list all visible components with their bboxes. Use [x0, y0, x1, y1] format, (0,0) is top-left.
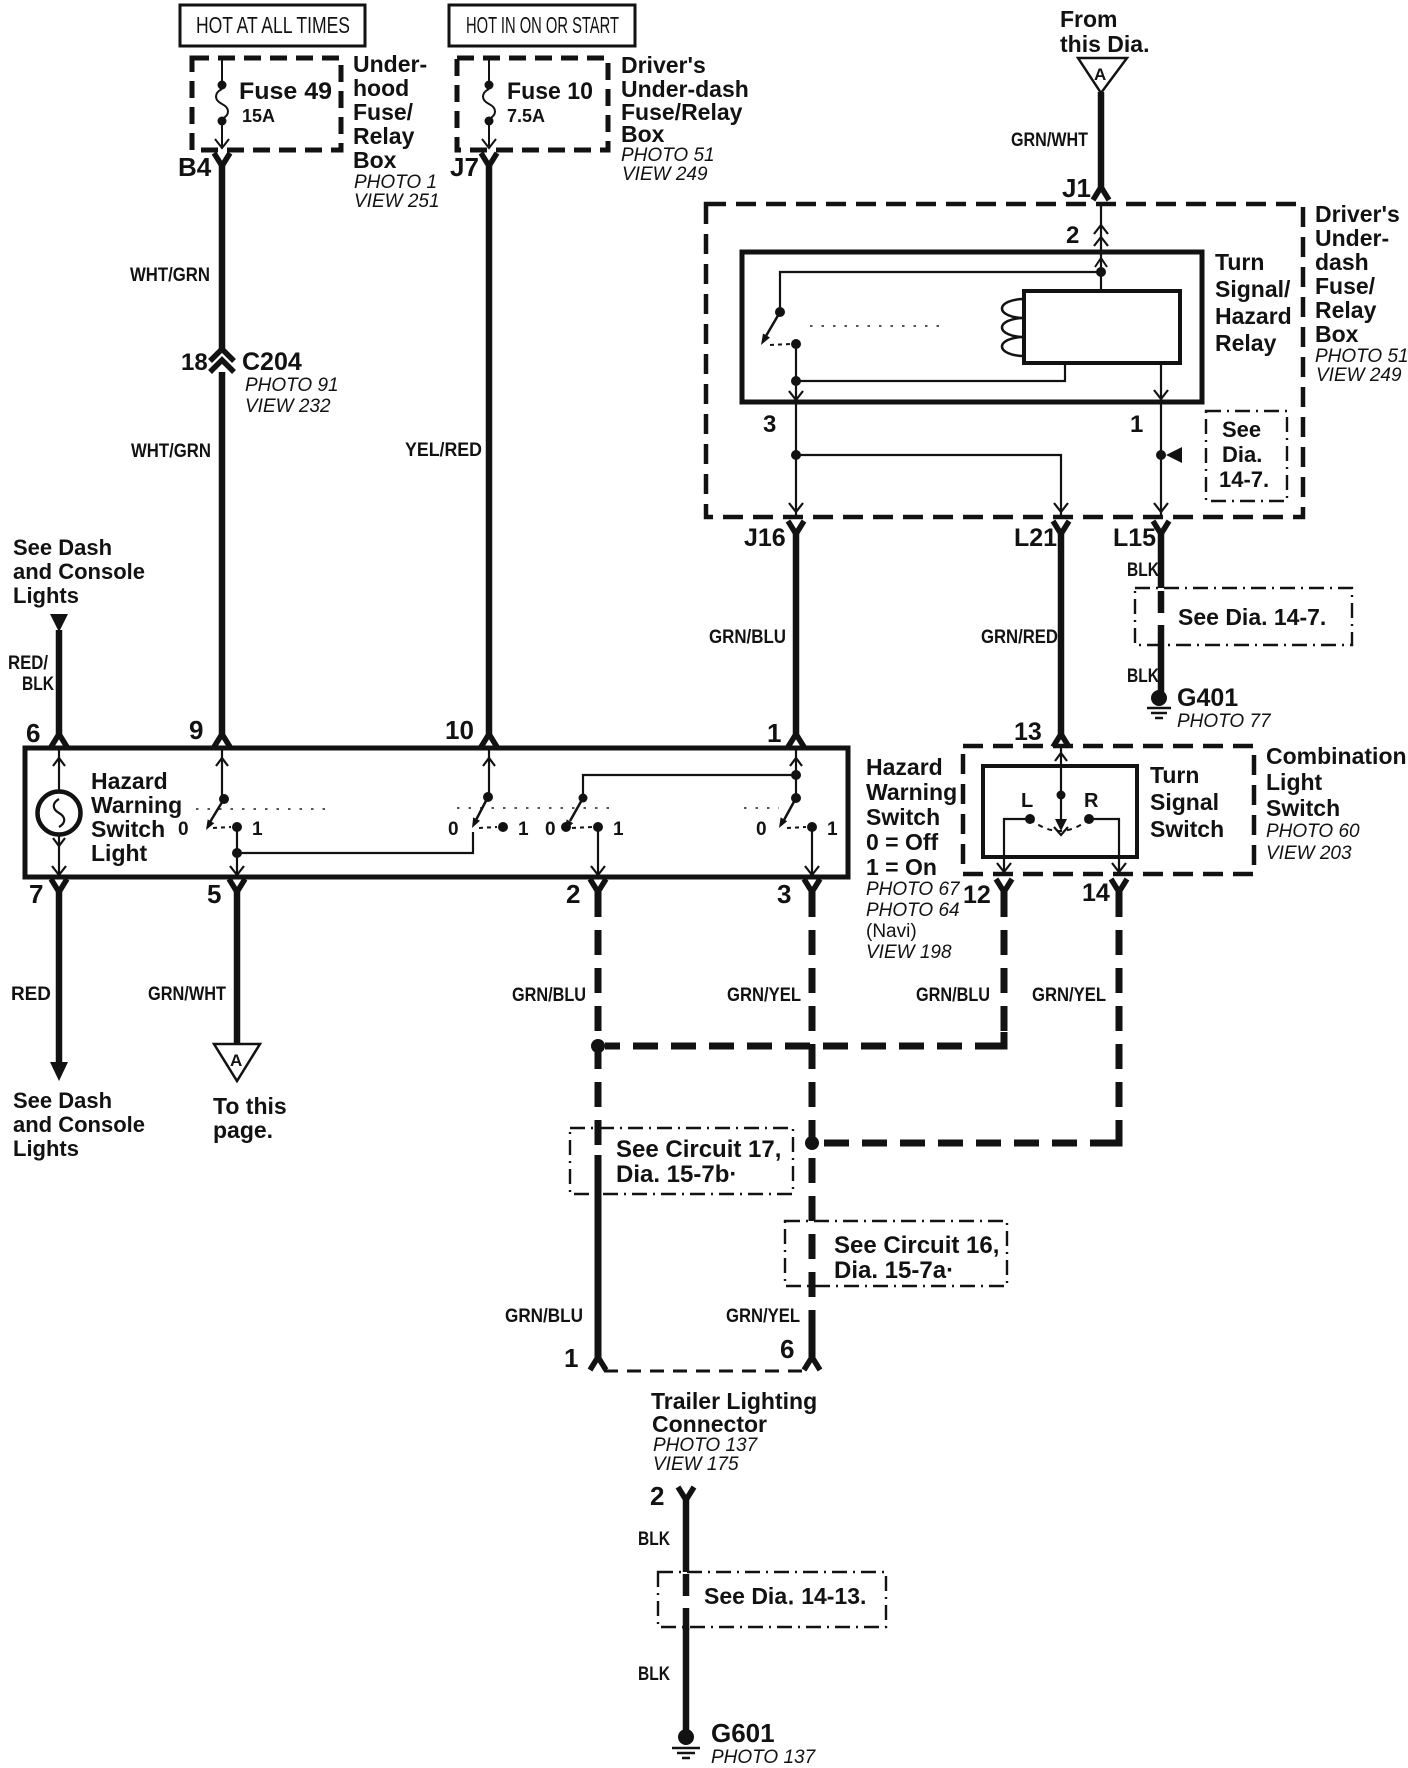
- svg-text:1: 1: [613, 819, 624, 840]
- hazard switch light bulb: [38, 792, 81, 835]
- connector fork B4: [214, 153, 230, 166]
- wire WHT/GRN B4 to C204: [219, 164, 226, 350]
- wire L contact to pin12: [1004, 819, 1030, 872]
- junction on pin1 wire: [1156, 450, 1166, 460]
- svg-text:Fuse/: Fuse/: [1315, 273, 1376, 299]
- svg-text:dash: dash: [1315, 249, 1369, 275]
- wire GRN/WHT pin5 down: [234, 890, 241, 1044]
- svg-text:HOT AT ALL TIMES: HOT AT ALL TIMES: [196, 12, 350, 38]
- svg-text:1: 1: [827, 819, 838, 840]
- svg-text:1: 1: [518, 819, 529, 840]
- svg-text:Signal: Signal: [1150, 789, 1219, 815]
- svg-text:J7: J7: [450, 152, 479, 182]
- svg-text:Combination: Combination: [1266, 743, 1407, 769]
- label Hazard Warning Switch 0=Off 1=On: [866, 754, 957, 880]
- See Dia. 14-7. box (upper): [1206, 411, 1287, 501]
- wire RED/BLK into hazard pin6: [56, 630, 63, 734]
- label Hazard Warning Switch Light: [91, 768, 182, 866]
- fuse F49 element: [215, 58, 229, 148]
- See Circuit 17 box: [570, 1128, 793, 1194]
- See Dia. 14-13. box: [658, 1572, 886, 1627]
- svg-text:VIEW 249: VIEW 249: [622, 164, 708, 185]
- svg-text:Relay: Relay: [353, 123, 415, 149]
- svg-text:3: 3: [777, 879, 791, 909]
- wire junction pin3 to L21: [796, 455, 1061, 515]
- svg-text:1: 1: [252, 819, 263, 840]
- svg-text:0: 0: [545, 819, 556, 840]
- svg-text:BLK: BLK: [22, 674, 54, 695]
- svg-text:1 = On: 1 = On: [866, 854, 937, 880]
- driver's under-dash fuse/relay box (large dashed): [706, 204, 1303, 517]
- svg-text:1: 1: [767, 718, 781, 748]
- svg-text:PHOTO 64: PHOTO 64: [866, 900, 960, 921]
- svg-text:Turn: Turn: [1215, 249, 1264, 275]
- svg-text:Light: Light: [1266, 769, 1323, 795]
- svg-text:VIEW 198: VIEW 198: [866, 942, 952, 963]
- wire GRN/WHT from A to J1: [1098, 92, 1105, 187]
- svg-text:Fuse 49: Fuse 49: [239, 78, 332, 105]
- svg-text:Lights: Lights: [13, 583, 79, 608]
- relay flasher output to pin1: [1160, 363, 1162, 515]
- svg-text:18: 18: [181, 349, 208, 376]
- connector fork L21: [1053, 521, 1069, 534]
- hazard lamp internal wire top: [58, 748, 60, 791]
- svg-text:PHOTO 60: PHOTO 60: [1266, 821, 1360, 842]
- svg-text:From: From: [1060, 6, 1118, 32]
- svg-text:Warning: Warning: [91, 792, 182, 818]
- connector C204 (pin 18): [210, 349, 234, 372]
- svg-text:Driver's: Driver's: [621, 52, 706, 78]
- relay switch arm: [766, 312, 780, 336]
- svg-text:Hazard: Hazard: [91, 768, 168, 794]
- svg-text:Fuse 10: Fuse 10: [507, 78, 593, 105]
- svg-text:1: 1: [564, 1343, 578, 1373]
- wire relay pin3 to J16: [795, 402, 797, 515]
- driver's under-dash fuse/relay box (dashed, top): [457, 58, 608, 150]
- header box HOT AT ALL TIMES: [180, 5, 365, 46]
- S1 wire down to pin5: [236, 827, 238, 875]
- svg-text:Fuse/: Fuse/: [353, 99, 414, 125]
- connector fork J16: [788, 521, 804, 534]
- relay wire pivot down to pin3: [795, 344, 797, 399]
- svg-text:2: 2: [650, 1481, 664, 1511]
- svg-text:PHOTO 137: PHOTO 137: [653, 1435, 759, 1456]
- wire corner patches: [990, 1032, 1004, 1046]
- combination light switch box (dashed): [963, 746, 1254, 874]
- S1 upper contact: [219, 794, 229, 804]
- svg-text:See Dia. 14-7.: See Dia. 14-7.: [1178, 604, 1326, 630]
- contact L: [1025, 814, 1035, 824]
- svg-text:Lights: Lights: [13, 1136, 79, 1161]
- header box HOT IN ON OR START: [449, 5, 635, 46]
- svg-text:Switch: Switch: [866, 804, 940, 830]
- connector forks pins 12 14: [996, 879, 1012, 892]
- S3 dashed link: [572, 827, 592, 828]
- svg-text:VIEW 175: VIEW 175: [653, 1454, 739, 1475]
- wire R contact to pin14: [1089, 819, 1119, 872]
- label Turn Signal/Hazard Relay: [1215, 249, 1292, 356]
- wire WHT/GRN C204 to hazard pin 9: [219, 372, 226, 736]
- connector forks hazard box top pins 6 9 10 1: [51, 734, 67, 747]
- svg-text:Dia. 15-7b·: Dia. 15-7b·: [616, 1161, 737, 1188]
- svg-text:7.5A: 7.5A: [507, 106, 545, 126]
- svg-text:L21: L21: [1014, 524, 1057, 552]
- S3 wire arm up and right to pin1 wire: [583, 775, 796, 798]
- label Driver's Under-dash Fuse/Relay Box PHOTO 51 VIEW 249 (top): [621, 52, 749, 147]
- connector fork J1: [1093, 187, 1109, 200]
- S4 upper contact: [791, 793, 801, 803]
- label See Dash and Console Lights (bottom left): [13, 1088, 145, 1161]
- svg-text:1: 1: [1130, 411, 1143, 438]
- relay flasher unit box: [1024, 291, 1180, 363]
- switch S2 (pin10) wire: [488, 748, 490, 794]
- svg-text:GRN/WHT: GRN/WHT: [148, 984, 226, 1005]
- svg-text:0: 0: [756, 819, 767, 840]
- svg-text:VIEW 249: VIEW 249: [1316, 365, 1402, 386]
- svg-text:Under-: Under-: [353, 51, 427, 77]
- svg-text:To this: To this: [213, 1093, 287, 1119]
- label Driver's Under-dash Fuse/Relay Box (right of dashed box): [1315, 201, 1400, 347]
- svg-text:PHOTO 91: PHOTO 91: [245, 375, 339, 396]
- wire GRN/BLU J16 to hazard pin1: [793, 532, 800, 736]
- svg-text:Under-: Under-: [1315, 225, 1389, 251]
- svg-text:YEL/RED: YEL/RED: [405, 440, 482, 461]
- S3 wire down to pin2: [597, 827, 599, 875]
- svg-text:2: 2: [1066, 222, 1079, 249]
- svg-text:Hazard: Hazard: [866, 754, 943, 780]
- svg-text:RED: RED: [11, 984, 51, 1005]
- svg-text:GRN/BLU: GRN/BLU: [512, 985, 586, 1006]
- svg-text:See Dash: See Dash: [13, 1088, 112, 1113]
- ground G601: [678, 1729, 694, 1745]
- dashed selector arc: [1030, 819, 1089, 831]
- wire GRN/YEL pin3 solid to trailer pin6: [809, 1330, 816, 1357]
- svg-text:BLK: BLK: [638, 1664, 670, 1685]
- underhood fuse/relay box (dashed): [192, 58, 341, 150]
- svg-text:Switch: Switch: [1150, 816, 1224, 842]
- svg-text:Relay: Relay: [1315, 297, 1377, 323]
- S2 upper contact: [483, 792, 493, 802]
- S3 pivot contact: [593, 822, 603, 832]
- relay pin3 exit arrow: [789, 391, 803, 400]
- wire pin2 into relay: [1100, 204, 1102, 291]
- connector fork L15: [1153, 521, 1169, 534]
- junction wire2/wire12: [591, 1039, 605, 1053]
- svg-text:this Dia.: this Dia.: [1060, 31, 1149, 57]
- S1 dashed link: [213, 827, 231, 828]
- turn signal switch inner box: [983, 766, 1137, 857]
- trailer lighting connector dashed edge: [604, 1370, 810, 1373]
- svg-text:J1: J1: [1062, 173, 1091, 203]
- S1 pivot contact: [232, 822, 242, 832]
- svg-text:Relay: Relay: [1215, 330, 1277, 356]
- turn signal arm arrowhead: [1055, 819, 1067, 831]
- svg-text:6: 6: [780, 1334, 794, 1364]
- svg-text:Box: Box: [353, 147, 397, 173]
- svg-text:14: 14: [1082, 879, 1110, 907]
- label See Dash and Console Lights (top left): [13, 535, 145, 608]
- svg-text:B4: B4: [178, 152, 212, 182]
- relay U1 turn signal/hazard relay box: [742, 252, 1202, 402]
- S2 arm: [476, 797, 488, 820]
- svg-text:PHOTO 51: PHOTO 51: [621, 145, 715, 166]
- svg-text:Light: Light: [91, 840, 148, 866]
- svg-text:GRN/BLU: GRN/BLU: [916, 985, 990, 1006]
- relay coil: [1002, 299, 1024, 356]
- svg-text:GRN/YEL: GRN/YEL: [727, 985, 801, 1006]
- svg-text:Warning: Warning: [866, 779, 957, 805]
- wire GRN/BLU pin2 down (dashed): [595, 892, 602, 1160]
- S4 pivot contact: [807, 822, 817, 832]
- connector fork pin13: [1053, 734, 1069, 747]
- svg-text:PHOTO 137: PHOTO 137: [711, 1747, 817, 1768]
- svg-text:Switch: Switch: [91, 816, 165, 842]
- wire S1 junction to S2 contact: [237, 832, 473, 853]
- svg-text:G401: G401: [1177, 684, 1238, 712]
- S2 pivot contact: [498, 822, 508, 832]
- svg-text:13: 13: [1014, 718, 1042, 746]
- fuse F10 element: [482, 58, 496, 148]
- relay dotted mechanical link: [810, 325, 940, 327]
- svg-text:14-7.: 14-7.: [1219, 467, 1269, 492]
- See Circuit 16 box: [785, 1221, 1007, 1286]
- pin 2 chevrons: [1094, 225, 1108, 246]
- arrow to See Dia 14-7: [1166, 447, 1182, 463]
- svg-text:GRN/BLU: GRN/BLU: [709, 627, 786, 648]
- svg-text:10: 10: [445, 715, 474, 745]
- See Dia. 14-7. box (lower): [1135, 588, 1352, 645]
- svg-text:GRN/YEL: GRN/YEL: [726, 1306, 800, 1327]
- svg-text:See Circuit 16,: See Circuit 16,: [834, 1232, 999, 1259]
- label Combination Light Switch: [1266, 743, 1407, 821]
- connector forks hazard bottom pins 7 5 2 3: [51, 879, 67, 892]
- svg-text:Connector: Connector: [652, 1411, 767, 1437]
- switch S4 (pin1 to pin3) wire: [795, 748, 797, 795]
- svg-text:7: 7: [29, 879, 43, 909]
- contact R: [1084, 814, 1094, 824]
- svg-text:GRN/YEL: GRN/YEL: [1032, 985, 1106, 1006]
- svg-text:Box: Box: [621, 121, 665, 147]
- svg-text:page.: page.: [213, 1117, 273, 1143]
- trailer pin1 fork: [590, 1357, 606, 1370]
- svg-text:WHT/GRN: WHT/GRN: [131, 441, 211, 462]
- wire BLK L15: [1158, 532, 1165, 588]
- S3 arm: [570, 798, 583, 821]
- wire BLK to G401: [1158, 645, 1165, 692]
- svg-text:GRN/RED: GRN/RED: [981, 627, 1058, 648]
- svg-text:See Dash: See Dash: [13, 535, 112, 560]
- svg-text:GRN/WHT: GRN/WHT: [1011, 130, 1088, 151]
- svg-text:0: 0: [448, 819, 459, 840]
- svg-text:G601: G601: [711, 1718, 775, 1748]
- svg-text:PHOTO 51: PHOTO 51: [1315, 346, 1408, 367]
- svg-text:GRN/BLU: GRN/BLU: [505, 1306, 583, 1327]
- svg-text:and Console: and Console: [13, 559, 145, 584]
- S4 dashed link: [787, 827, 806, 828]
- svg-text:VIEW 203: VIEW 203: [1266, 843, 1352, 864]
- svg-text:See: See: [1222, 417, 1261, 442]
- svg-text:12: 12: [963, 881, 991, 909]
- relay switch pivot contact: [791, 339, 801, 349]
- label Under-hood Fuse/Relay Box PHOTO 1 VIEW 251: [353, 51, 427, 173]
- connector fork J7: [481, 153, 497, 166]
- svg-text:Box: Box: [1315, 321, 1359, 347]
- relay wire to switch contact: [780, 272, 1101, 308]
- svg-text:A: A: [1094, 65, 1106, 84]
- dotted mechanical linkage: [196, 808, 779, 809]
- svg-text:Driver's: Driver's: [1315, 201, 1400, 227]
- svg-text:WHT/GRN: WHT/GRN: [130, 265, 210, 286]
- svg-text:R: R: [1084, 790, 1099, 812]
- hazard lamp internal wire bottom: [58, 835, 60, 875]
- svg-text:Dia.: Dia.: [1222, 442, 1262, 467]
- label Turn Signal Switch: [1150, 762, 1224, 842]
- arrow into wire 6: [50, 614, 68, 632]
- fuse F49 terminal dots: [218, 81, 227, 90]
- svg-text:0 = Off: 0 = Off: [866, 829, 939, 855]
- svg-text:6: 6: [26, 718, 40, 748]
- svg-text:VIEW 232: VIEW 232: [245, 396, 331, 417]
- wire GRN/RED L21 to turn signal pin13: [1058, 532, 1065, 736]
- arrow out of wire 7: [50, 1062, 68, 1081]
- relay chevron below top edge: [1095, 258, 1107, 267]
- relay switch dashed link: [770, 344, 790, 345]
- svg-text:Switch: Switch: [1266, 795, 1340, 821]
- svg-text:hood: hood: [353, 75, 409, 101]
- svg-text:Dia. 15-7a·: Dia. 15-7a·: [834, 1257, 954, 1284]
- relay switch fixed contact: [775, 307, 785, 317]
- svg-text:L: L: [1021, 790, 1033, 812]
- trailer pin2 fork: [678, 1487, 694, 1500]
- svg-text:See Circuit 17,: See Circuit 17,: [616, 1136, 781, 1163]
- fuse F10 terminal dots: [485, 81, 494, 90]
- svg-text:VIEW 251: VIEW 251: [354, 191, 440, 212]
- wire BLK dashed through box: [1158, 591, 1165, 645]
- svg-text:(Navi): (Navi): [866, 921, 917, 942]
- S2 dashed link: [479, 827, 497, 828]
- svg-text:J16: J16: [744, 524, 786, 552]
- svg-text:Hazard: Hazard: [1215, 303, 1292, 329]
- svg-text:3: 3: [763, 411, 776, 438]
- svg-text:15A: 15A: [242, 106, 275, 126]
- ground G401: [1151, 690, 1167, 706]
- trailer pin6 fork: [804, 1357, 820, 1370]
- node A triangle (from this diagram): [1078, 58, 1127, 93]
- switch S3 (to pin2) fixed contact: [561, 822, 571, 832]
- svg-text:Turn: Turn: [1150, 762, 1199, 788]
- node A triangle (to this page): [214, 1044, 260, 1081]
- svg-text:and Console: and Console: [13, 1112, 145, 1137]
- svg-text:See Dia․ 14-13.: See Dia․ 14-13.: [704, 1583, 866, 1609]
- hazard warning switch box: [25, 748, 848, 877]
- S1 arm: [210, 799, 224, 822]
- relay node junction pin2: [1096, 267, 1106, 277]
- junction wire3/wire14: [805, 1136, 819, 1150]
- svg-text:PHOTO 1: PHOTO 1: [354, 172, 437, 193]
- svg-text:0: 0: [178, 819, 189, 840]
- wire BLK dashed through box: [683, 1574, 690, 1630]
- wire BLK to G601: [683, 1628, 690, 1730]
- svg-text:2: 2: [566, 879, 580, 909]
- svg-text:BLK: BLK: [1127, 560, 1159, 581]
- svg-text:BLK: BLK: [1127, 666, 1159, 687]
- wire GRN/BLU pin12 down (dashed): [605, 892, 1004, 1046]
- S4 arm: [784, 798, 796, 820]
- svg-text:RED/: RED/: [8, 653, 49, 674]
- svg-text:A: A: [230, 1051, 242, 1070]
- switch S1 (pin9 to pin5) wire: [221, 748, 223, 796]
- svg-text:HOT IN ON OR START: HOT IN ON OR START: [466, 12, 619, 38]
- svg-text:5: 5: [207, 879, 221, 909]
- wire BLK trailer pin2 down: [683, 1498, 690, 1572]
- pin13 internal wire: [1060, 746, 1062, 820]
- svg-text:Signal/: Signal/: [1215, 276, 1291, 302]
- svg-text:9: 9: [189, 715, 203, 745]
- svg-text:L15: L15: [1113, 524, 1156, 552]
- S4 junction with S3 line: [791, 770, 801, 780]
- relay junction to flasher: [791, 376, 801, 386]
- wire GRN/BLU pin2 solid to trailer pin1: [595, 1155, 602, 1357]
- wire RED pin7 down: [56, 890, 63, 1063]
- svg-text:BLK: BLK: [638, 1529, 670, 1550]
- svg-text:C204: C204: [242, 348, 302, 376]
- wire YEL/RED J7 to hazard pin 10: [486, 164, 493, 736]
- svg-text:PHOTO 67: PHOTO 67: [866, 879, 961, 900]
- wire GRN/YEL pin3 down (dashed): [809, 892, 816, 1332]
- wire GRN/YEL pin14 down (dashed): [819, 892, 1119, 1143]
- S4 wire down to pin3: [811, 827, 813, 875]
- svg-text:PHOTO 77: PHOTO 77: [1177, 711, 1272, 732]
